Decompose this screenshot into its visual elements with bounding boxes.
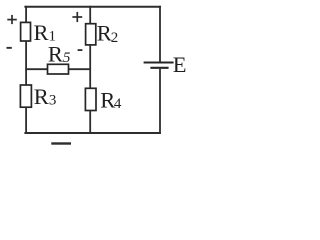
wire R5 left segment xyxy=(25,68,47,70)
polarity - at R1 bottom xyxy=(7,47,12,49)
wire right branch lower (battery to bottom wire) xyxy=(159,69,161,134)
polarity + at R1 top xyxy=(7,15,16,24)
svg-text:R4: R4 xyxy=(100,88,122,113)
svg-text:R5: R5 xyxy=(48,41,71,66)
wire left branch lower (R3 to bottom wire) xyxy=(25,107,27,134)
wire middle branch upper (top wire to R2) xyxy=(89,6,91,24)
svg-text:E: E xyxy=(173,52,187,77)
polarity + at R2 top xyxy=(72,12,82,22)
wire right branch upper (top wire to battery) xyxy=(159,6,161,62)
resistor R4 xyxy=(85,88,96,110)
svg-text:R2: R2 xyxy=(97,21,119,46)
resistor R2 xyxy=(86,24,96,45)
resistor R1 xyxy=(21,22,31,41)
resistor R3 xyxy=(20,85,31,107)
wire middle branch lower (R4 to bottom wire) xyxy=(89,111,91,134)
wire middle branch middle (R2 to R4, through R5 junction) xyxy=(89,45,91,89)
ground dash below bottom wire xyxy=(51,142,71,144)
wire left branch middle (R1 to R3, through R5 junction) xyxy=(25,41,27,85)
resistor R5 xyxy=(48,64,69,74)
wire R5 right segment xyxy=(69,68,92,70)
svg-text:R3: R3 xyxy=(34,84,57,109)
wire left branch upper (top wire to R1) xyxy=(25,6,27,23)
battery E plates xyxy=(144,63,174,68)
wire bottom horizontal xyxy=(24,132,161,134)
wire top horizontal (from left branch to battery branch) xyxy=(24,6,161,8)
polarity - at R2 bottom xyxy=(78,49,83,51)
